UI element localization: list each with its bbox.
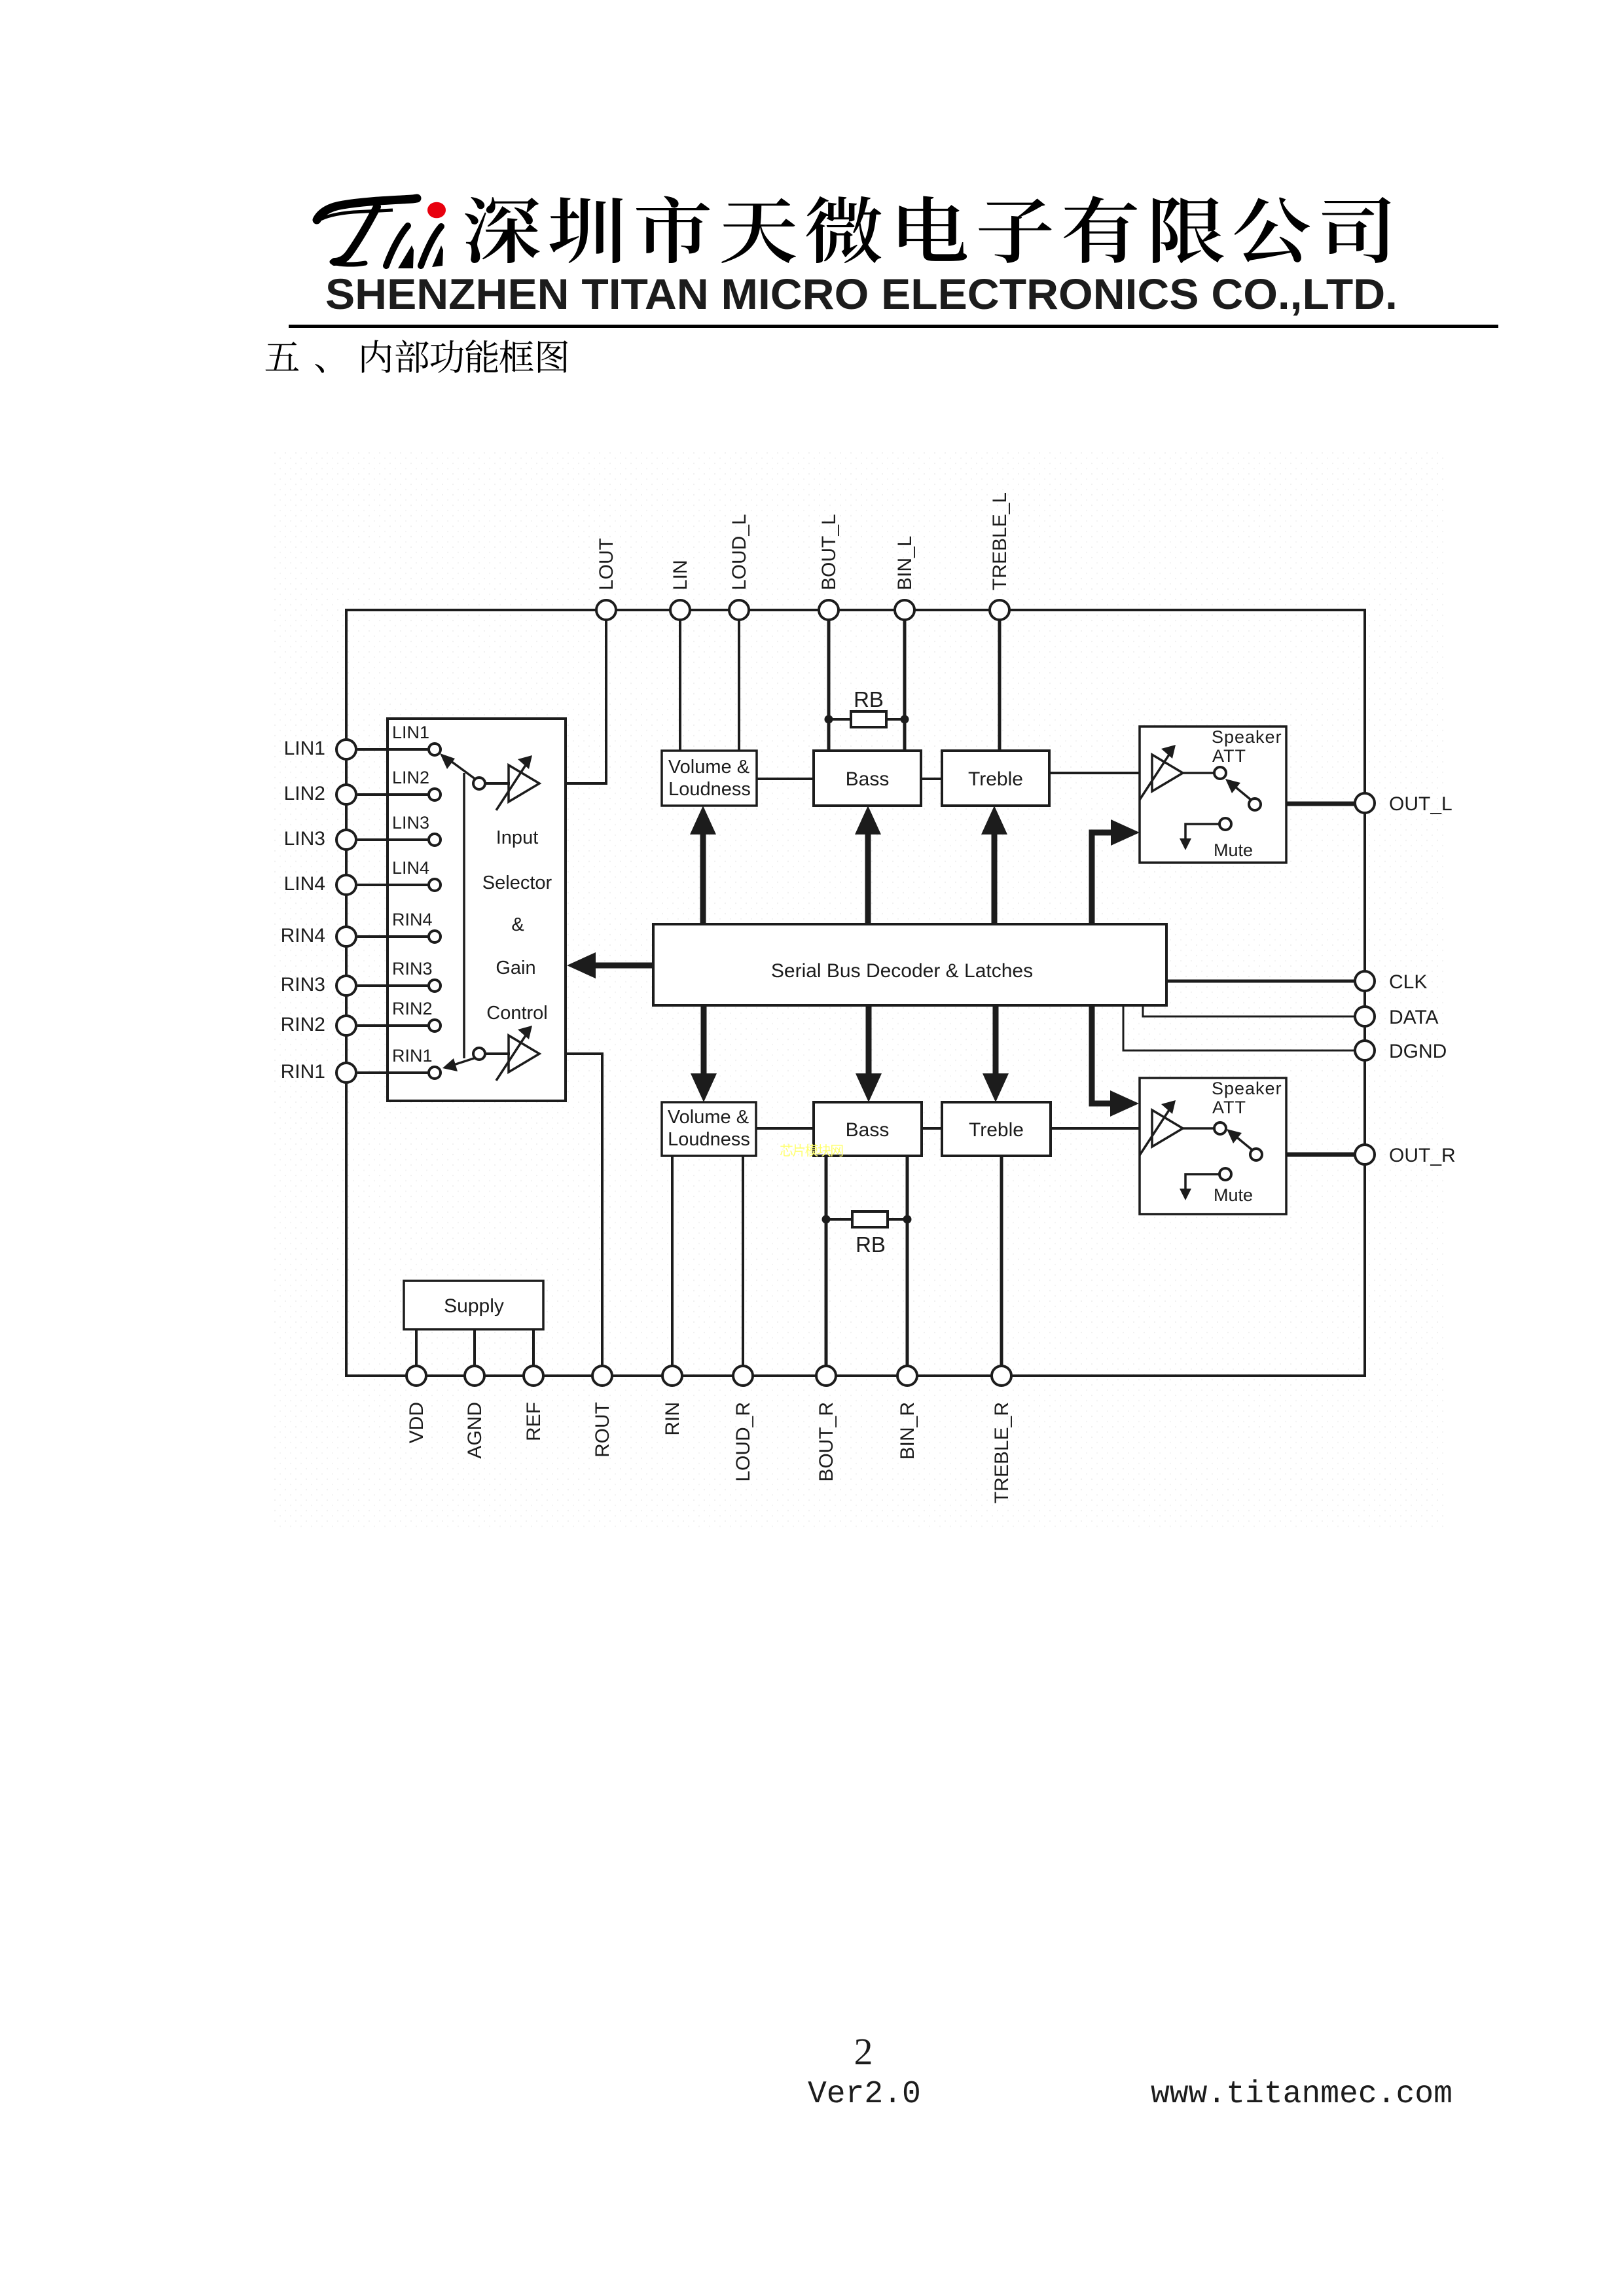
control arrow decoder to Bass-L <box>865 833 871 924</box>
switch arm R (to OUT_R) <box>1227 1129 1262 1160</box>
svg-text:LIN4: LIN4 <box>284 873 325 895</box>
block Volume & Loudness R <box>662 1102 756 1156</box>
mute contact R <box>1180 1168 1253 1205</box>
svg-text:Mute: Mute <box>1214 840 1253 860</box>
selector contact LIN4 <box>357 858 441 891</box>
svg-text:Bass: Bass <box>846 768 890 790</box>
mute contact L <box>1180 818 1253 860</box>
wire Treble-R to speaker amp R <box>1051 1127 1153 1130</box>
wire LOUT to selector L-amp output <box>539 620 606 783</box>
svg-text:OUT_R: OUT_R <box>1389 1145 1456 1166</box>
block Input Selector & Gain Control <box>388 719 566 1101</box>
wire BOUT_L stub <box>827 620 831 751</box>
junction dot BIN_R/RB <box>903 1215 912 1224</box>
pin LIN2 (left) <box>284 783 356 804</box>
svg-text:Control: Control <box>486 1003 548 1024</box>
wire LIN stub <box>679 620 681 751</box>
wire TREBLE_L stub <box>998 620 1001 751</box>
svg-text:RB: RB <box>854 687 884 711</box>
junction dot BOUT_R/RB <box>822 1215 831 1224</box>
control arrow decoder to V&L-R <box>701 1005 707 1077</box>
wire OUT_L from speaker switch L <box>1259 802 1355 806</box>
block Bass R <box>814 1102 922 1156</box>
svg-text:Loudness: Loudness <box>668 1129 750 1150</box>
amplifier speaker R <box>1152 1110 1183 1147</box>
IC outer boundary box <box>346 610 1365 1376</box>
svg-text:Supply: Supply <box>444 1295 504 1317</box>
pin OUT_L (right) <box>1355 793 1453 815</box>
pin LOUD_L (top) <box>729 514 750 620</box>
wire wiper R to amp <box>485 1052 510 1055</box>
svg-text:RIN4: RIN4 <box>392 910 433 929</box>
svg-text:LOUT: LOUT <box>596 538 617 590</box>
svg-text:LIN4: LIN4 <box>392 858 429 878</box>
svg-text:Serial Bus Decoder & Latches: Serial Bus Decoder & Latches <box>771 960 1033 982</box>
svg-text:Treble: Treble <box>969 1119 1024 1141</box>
pin LOUT (top) <box>596 538 617 620</box>
wire wiper L to amp <box>485 782 510 785</box>
pin RIN2 (left) <box>281 1014 356 1035</box>
pin BIN_L (top) <box>894 536 916 620</box>
svg-text:Bass: Bass <box>846 1119 890 1141</box>
control arrow decoder to V&L-L <box>700 833 706 924</box>
wire LOUD_R stub <box>742 1156 744 1366</box>
block Treble R <box>942 1102 1051 1156</box>
pin ROUT (bottom) <box>592 1366 613 1458</box>
svg-text:LIN1: LIN1 <box>392 723 429 742</box>
wire RB-R span <box>826 1218 907 1221</box>
resistor RB (left channel) <box>851 711 886 727</box>
block Volume & Loudness L <box>662 751 757 806</box>
wire BIN_R stub <box>906 1156 909 1366</box>
svg-text:Treble: Treble <box>968 768 1023 790</box>
wire BIN_L stub <box>903 620 907 751</box>
wire ROUT to selector R-amp output <box>539 1054 602 1366</box>
wire AGND stub <box>473 1329 476 1366</box>
wire DGND to decoder <box>1123 1007 1355 1050</box>
selector contact RIN1 <box>357 1046 441 1079</box>
svg-text:RIN2: RIN2 <box>392 999 433 1018</box>
svg-text:BIN_R: BIN_R <box>897 1402 918 1460</box>
svg-text:BIN_L: BIN_L <box>894 536 916 590</box>
wire V&L-R to Bass-R <box>756 1127 814 1130</box>
wire RB-L span <box>829 718 905 721</box>
amplifier speaker L <box>1152 755 1183 791</box>
pin RIN (bottom) <box>662 1366 683 1436</box>
svg-text:RIN3: RIN3 <box>392 959 433 978</box>
selector bus wire <box>463 773 465 1058</box>
pin RIN3 (left) <box>281 974 356 996</box>
svg-text:DATA: DATA <box>1389 1007 1439 1028</box>
junction dot BIN_L/RB <box>901 715 909 724</box>
wire BOUT_R stub <box>825 1156 828 1366</box>
svg-text:RIN3: RIN3 <box>281 974 325 996</box>
ATT contact R <box>1214 1122 1226 1134</box>
svg-text:RB: RB <box>856 1232 886 1257</box>
company logo "Tmi" swash <box>317 198 441 266</box>
switch wiper L <box>440 753 485 789</box>
selector contact RIN4 <box>357 910 441 942</box>
pin DATA (right) <box>1355 1007 1439 1028</box>
control arrow decoder to input selector <box>593 963 653 969</box>
pin LIN1 (left) <box>284 738 356 759</box>
svg-text:BOUT_L: BOUT_L <box>818 514 840 590</box>
svg-text:AGND: AGND <box>464 1402 486 1459</box>
svg-text:SHENZHEN TITAN MICRO ELECTRONI: SHENZHEN TITAN MICRO ELECTRONICS CO.,LTD… <box>325 270 1398 318</box>
svg-text:DGND: DGND <box>1389 1041 1447 1062</box>
wire CLK to decoder <box>1166 980 1355 983</box>
pin LIN4 (left) <box>284 873 356 895</box>
svg-text:LIN3: LIN3 <box>284 828 325 850</box>
svg-text:Ver2.0: Ver2.0 <box>808 2077 921 2112</box>
diagram scan background texture <box>272 452 1443 1528</box>
svg-text:REF: REF <box>523 1402 545 1441</box>
svg-text:Volume &: Volume & <box>668 757 749 778</box>
svg-text:CLK: CLK <box>1389 971 1427 993</box>
pin OUT_R (right) <box>1355 1145 1456 1166</box>
selector contact LIN3 <box>357 813 441 846</box>
control arrow decoder to speaker ATT R <box>1092 1005 1113 1103</box>
pin BIN_R (bottom) <box>897 1366 918 1460</box>
svg-text:RIN: RIN <box>662 1402 683 1436</box>
pin BOUT_L (top) <box>818 514 840 620</box>
selector contact LIN2 <box>357 768 441 800</box>
pin CLK (right) <box>1355 971 1427 993</box>
svg-text:&: & <box>511 914 524 935</box>
header horizontal rule <box>289 325 1498 328</box>
pin RIN4 (left) <box>281 925 356 946</box>
svg-text:OUT_L: OUT_L <box>1389 793 1453 815</box>
svg-text:Gain: Gain <box>496 958 535 978</box>
block Treble L <box>942 751 1049 806</box>
pin BOUT_R (bottom) <box>816 1366 837 1482</box>
selector contact RIN2 <box>357 999 441 1031</box>
pin TREBLE_R (bottom) <box>991 1366 1013 1503</box>
wire Bass-L to Treble-L <box>921 778 942 780</box>
pin LOUD_R (bottom) <box>732 1366 754 1482</box>
svg-text:LOUD_R: LOUD_R <box>732 1402 754 1482</box>
block Supply <box>404 1281 543 1329</box>
pin TREBLE_L (top) <box>989 492 1011 620</box>
pin LIN3 (left) <box>284 828 356 850</box>
wire TREBLE_R stub <box>1000 1156 1003 1366</box>
control arrow decoder to Bass-R <box>866 1005 872 1077</box>
svg-text:ATT: ATT <box>1212 746 1246 766</box>
block Bass L <box>814 751 921 806</box>
logo red dot (tittle of i) <box>427 202 446 219</box>
amplifier L (selector gain) <box>509 765 539 802</box>
wire REF stub <box>532 1329 535 1366</box>
switch arm L (to OUT_L) <box>1225 779 1261 810</box>
svg-text:Speaker: Speaker <box>1212 727 1282 747</box>
header Chinese text 深圳市天微电子有限公司 <box>465 196 1391 263</box>
svg-text:RIN2: RIN2 <box>281 1014 325 1035</box>
svg-text:ATT: ATT <box>1212 1098 1246 1117</box>
svg-text:BOUT_R: BOUT_R <box>816 1402 837 1482</box>
svg-text:Speaker: Speaker <box>1212 1079 1282 1098</box>
svg-text:LIN1: LIN1 <box>284 738 325 759</box>
svg-text:LIN: LIN <box>670 560 691 590</box>
svg-text:LIN2: LIN2 <box>284 783 325 804</box>
wire OUT_R from speaker switch R <box>1261 1153 1355 1157</box>
svg-text:RIN4: RIN4 <box>281 925 325 946</box>
svg-text:Loudness: Loudness <box>668 779 751 800</box>
svg-text:LOUD_L: LOUD_L <box>729 514 750 590</box>
resistor RB (right channel) <box>852 1211 888 1227</box>
control arrow decoder to Treble-R <box>993 1005 999 1077</box>
svg-text:Input: Input <box>496 827 539 848</box>
block Speaker ATT R <box>1140 1078 1286 1214</box>
svg-text:TREBLE_L: TREBLE_L <box>989 492 1011 590</box>
svg-text:Mute: Mute <box>1214 1185 1253 1205</box>
section title 五、内部功能框图 <box>266 340 568 373</box>
svg-text:RIN1: RIN1 <box>392 1046 433 1066</box>
junction dot BOUT_L/RB <box>825 715 833 724</box>
wire Treble-L to speaker amp L <box>1049 772 1153 774</box>
svg-text:LIN3: LIN3 <box>392 813 429 833</box>
wire amp R to ATT contact <box>1183 1127 1214 1130</box>
wire Bass-R to Treble-R <box>922 1127 942 1130</box>
switch wiper R <box>442 1048 485 1071</box>
pin RIN1 (left) <box>281 1061 356 1083</box>
control arrow decoder to speaker ATT L <box>1092 833 1113 924</box>
svg-text:Volume &: Volume & <box>668 1107 749 1128</box>
wire VDD stub <box>415 1329 418 1366</box>
wire amp L to ATT contact <box>1183 772 1214 774</box>
wire LOUD_L stub <box>738 620 740 751</box>
wire V&L-L to Bass-L <box>757 778 814 780</box>
wire DATA to decoder <box>1143 1007 1355 1016</box>
svg-text:Selector: Selector <box>482 872 552 893</box>
selector contact LIN1 <box>357 723 441 755</box>
svg-text:VDD: VDD <box>406 1402 427 1443</box>
svg-text:TREBLE_R: TREBLE_R <box>991 1402 1013 1503</box>
svg-text:2: 2 <box>854 2030 873 2073</box>
block Speaker ATT L <box>1140 726 1286 863</box>
block Serial Bus Decoder & Latches <box>653 924 1166 1005</box>
svg-text:LIN2: LIN2 <box>392 768 429 787</box>
pin VDD (bottom) <box>406 1366 427 1443</box>
pin DGND (right) <box>1355 1041 1447 1062</box>
svg-text:www.titanmec.com: www.titanmec.com <box>1151 2077 1453 2112</box>
pin REF (bottom) <box>523 1366 545 1441</box>
pin AGND (bottom) <box>464 1366 486 1459</box>
pin LIN (top) <box>670 560 691 620</box>
control arrow decoder to Treble-L <box>992 833 998 924</box>
watermark 芯片模块网 <box>780 1144 843 1157</box>
amplifier R (selector gain) <box>509 1035 539 1072</box>
ATT contact L <box>1214 767 1226 779</box>
wire RIN stub <box>671 1156 674 1366</box>
svg-text:ROUT: ROUT <box>592 1402 613 1458</box>
selector contact RIN3 <box>357 959 441 992</box>
svg-text:RIN1: RIN1 <box>281 1061 325 1083</box>
